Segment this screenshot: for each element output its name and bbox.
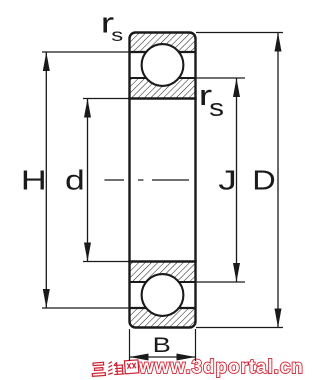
extension lines [42, 33, 283, 362]
inner ring bottom line [129, 281, 197, 283]
arrow J up [233, 78, 240, 97]
bearing outline [130, 33, 196, 328]
hatched band inner ring top [128, 78, 196, 99]
dim line d [87, 99, 89, 262]
dimension lines [46, 33, 278, 358]
outer raceway shoulder line bottom [129, 307, 197, 309]
watermark glyph WEI [107, 361, 124, 375]
watermark glyph WANG [124, 360, 138, 374]
svg-text:D: D [252, 166, 275, 196]
svg-text:B: B [153, 334, 171, 357]
svg-text:d: d [65, 164, 85, 195]
ext line B right [195, 329, 197, 361]
hatched band outer ring bottom [128, 308, 196, 328]
svg-text:s: s [209, 95, 224, 122]
arrow H down [43, 289, 50, 308]
svg-text:www.3dportal.cn: www.3dportal.cn [138, 357, 304, 378]
ball bottom [142, 274, 184, 316]
dim line D [277, 33, 279, 328]
dim line B [130, 356, 196, 358]
ext line H top [42, 51, 129, 53]
ext line H bottom [42, 307, 129, 309]
ball top [142, 44, 184, 86]
bore surface bottom edge [128, 260, 196, 262]
arrow H up [43, 52, 50, 71]
arrow d down [84, 243, 91, 262]
arrow D up [275, 33, 282, 52]
svg-text:J: J [218, 164, 237, 195]
dim line J [236, 78, 238, 282]
arrow D down [275, 309, 282, 328]
ext line J top [196, 77, 245, 79]
ext line d bottom [83, 261, 129, 263]
arrow d up [84, 99, 91, 118]
arrow B left [130, 354, 149, 361]
outer raceway shoulder line top [129, 51, 197, 53]
center line [105, 179, 190, 181]
arrow B right [177, 354, 196, 361]
ext line J bottom [196, 281, 245, 283]
svg-text:H: H [21, 164, 47, 195]
ext line B left [129, 329, 131, 361]
inner ring top line [129, 77, 197, 79]
bore surface top edge [128, 97, 196, 99]
ext line D bottom [196, 327, 283, 329]
dim line H [45, 52, 47, 308]
hatched band inner ring bottom [128, 262, 196, 283]
svg-text:s: s [111, 26, 123, 46]
watermark glyph SAN [92, 360, 139, 376]
watermark www.3dportal.cn [92, 357, 304, 378]
ext line D top [196, 32, 283, 34]
hatched band outer ring top [128, 33, 196, 328]
arrow J down [233, 263, 240, 282]
ext line d top [83, 98, 129, 100]
arrowheads [43, 33, 282, 361]
